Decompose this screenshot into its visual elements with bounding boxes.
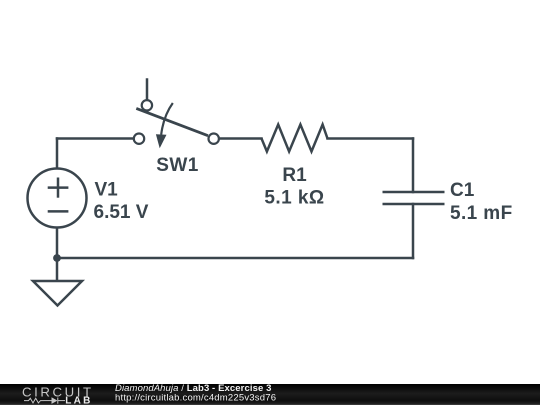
resistor R1 [262, 125, 328, 152]
wire ground stub [56, 258, 59, 281]
wire from V1 top to switch left terminal [57, 137, 134, 140]
CircuitLab logo resistor-diode glyph [24, 398, 65, 404]
switch SW1 [134, 100, 219, 148]
terminal circle right [209, 134, 219, 144]
terminal circle left [134, 134, 144, 144]
svg-text:V1: V1 [95, 180, 119, 201]
wire bottom horizontal [57, 257, 413, 260]
svg-text:6.51 V: 6.51 V [94, 202, 149, 223]
wire switch right terminal to resistor [219, 137, 262, 140]
actuation arrow [161, 103, 173, 135]
svg-text:SW1: SW1 [156, 155, 199, 176]
wire switch top stub [146, 80, 149, 101]
wire V1 bottom to junction [56, 228, 59, 259]
svg-text:LAB: LAB [65, 395, 92, 405]
wire resistor to right vertical [328, 137, 414, 140]
terminal circle top [142, 100, 152, 110]
svg-text:C1: C1 [450, 180, 475, 201]
wire right vertical upper [412, 139, 415, 193]
capacitor C1 [383, 192, 445, 204]
svg-text:http://circuitlab.com/c4dm225v: http://circuitlab.com/c4dm225v3sd76 [115, 393, 276, 404]
node junction at V1 bottom [53, 254, 61, 262]
lever [136, 108, 208, 135]
wire left vertical into V1 [56, 139, 59, 169]
wire right vertical lower [412, 204, 415, 258]
svg-text:5.1 kΩ: 5.1 kΩ [264, 188, 324, 209]
voltage source V1 [28, 169, 87, 228]
svg-text:R1: R1 [282, 165, 307, 186]
svg-text:5.1 mF: 5.1 mF [450, 203, 513, 224]
ground [33, 281, 82, 306]
